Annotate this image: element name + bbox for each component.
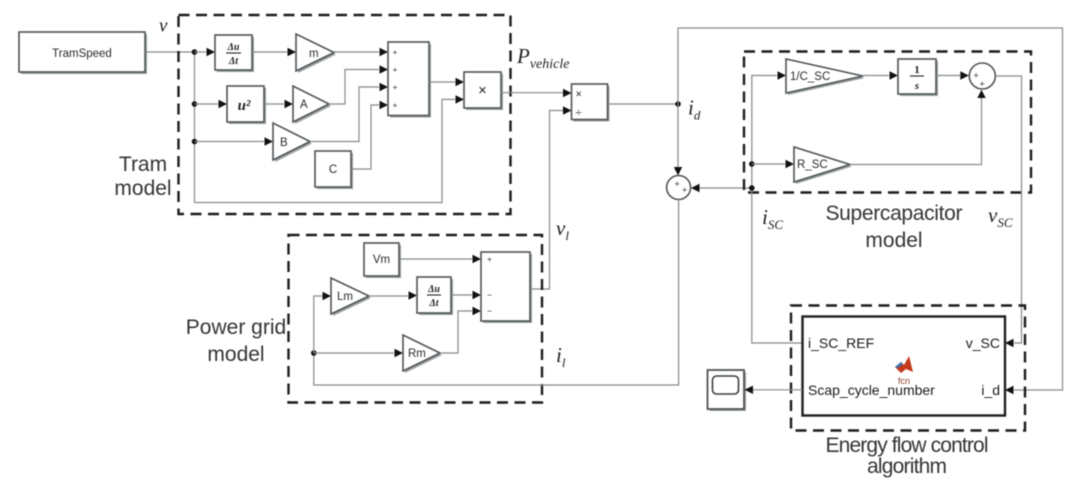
svg-text:+: +	[974, 71, 979, 81]
svg-text:m: m	[309, 48, 319, 60]
constant block Vm	[364, 243, 401, 278]
constant block C	[315, 151, 353, 189]
node junction v top	[192, 49, 198, 55]
wire A to sum in2	[329, 70, 379, 105]
svg-text:−: −	[487, 290, 492, 300]
svg-text:i_SC_REF: i_SC_REF	[808, 335, 874, 351]
svg-text:Δt: Δt	[428, 298, 439, 309]
derivative block du/dt 2	[417, 277, 453, 315]
svg-text:Lm: Lm	[337, 291, 353, 303]
svg-text:v_SC: v_SC	[966, 335, 1000, 351]
wire m to sum in1	[334, 51, 379, 53]
svg-text:Vm: Vm	[373, 254, 390, 266]
wire du/dt to gain m	[252, 51, 287, 53]
wire Scap_cycle_number to scope	[753, 389, 803, 391]
svg-text:Rm: Rm	[408, 348, 426, 360]
wire il bus from sum circle	[314, 200, 679, 386]
svg-text:1: 1	[914, 64, 920, 76]
wire Vm to sum pg in1	[399, 258, 472, 260]
gain Rm	[403, 335, 442, 373]
svg-text:−: −	[487, 306, 492, 316]
node junction isc to RSC	[749, 161, 755, 167]
gain m	[296, 34, 336, 73]
wire id up and across to control i_d input	[678, 28, 1063, 390]
svg-text:+: +	[675, 179, 680, 189]
sum block power grid	[481, 252, 532, 323]
wire v feedback to product in2	[195, 99, 456, 202]
matlab logo icon	[895, 356, 913, 386]
dashed subsystem box Tram model	[179, 15, 511, 214]
integrator block 1/s	[898, 59, 938, 96]
svg-text:+: +	[393, 82, 398, 92]
MATLAB function block	[803, 317, 1006, 416]
dashed subsystem box Power grid model	[289, 235, 543, 403]
wire TramSpeed to v bus	[145, 51, 195, 53]
wire product to divide	[501, 92, 563, 94]
wire v to du/dt	[195, 51, 207, 53]
wire v bus vertical	[194, 52, 196, 203]
svg-text:fcn: fcn	[898, 376, 910, 386]
wire C to sum in4	[351, 105, 379, 169]
source block TramSpeed	[19, 32, 147, 74]
svg-text:i_d: i_d	[981, 382, 1000, 398]
node junction il	[311, 350, 317, 356]
wire Lm to dudt2	[369, 295, 408, 297]
svg-text:s: s	[914, 80, 919, 92]
wire isc to RSC	[752, 163, 785, 165]
node junction isc to sum	[749, 185, 755, 191]
svg-text:R_SC: R_SC	[797, 159, 828, 171]
svg-text:+: +	[393, 100, 398, 110]
wire divide to id node	[608, 103, 679, 105]
wire vl to divide in2	[530, 111, 563, 290]
svg-text:u²: u²	[238, 98, 251, 114]
product block	[464, 72, 503, 110]
sum circle id+isc	[667, 176, 691, 200]
gain A	[293, 86, 331, 124]
gain B	[273, 123, 312, 162]
divide block	[572, 84, 610, 122]
wire 1/CSC to integrator	[863, 75, 889, 77]
svg-text:Δu: Δu	[227, 42, 240, 53]
svg-text:Δu: Δu	[427, 284, 440, 295]
svg-text:+: +	[393, 65, 398, 75]
wire u2 to gain A	[264, 103, 284, 105]
svg-text:A: A	[300, 99, 308, 111]
svg-text:TramSpeed: TramSpeed	[52, 48, 112, 60]
svg-text:1/C_SC: 1/C_SC	[790, 71, 830, 83]
svg-text:model: model	[865, 229, 922, 252]
node junction v low	[192, 139, 198, 145]
wire B to sum in3	[310, 87, 379, 142]
svg-text:v: v	[159, 16, 168, 37]
svg-text:×: ×	[576, 89, 582, 101]
svg-text:Δt: Δt	[228, 56, 239, 67]
wire il to Lm	[314, 296, 322, 353]
gain 1/C_SC	[786, 59, 865, 95]
svg-text:B: B	[280, 137, 288, 149]
svg-text:model: model	[207, 343, 264, 366]
wire id down to sum circle	[677, 104, 679, 167]
wire v to gain B	[195, 141, 265, 143]
svg-text:+: +	[980, 79, 985, 89]
wire v to u2	[195, 103, 219, 105]
svg-text:Supercapacitor: Supercapacitor	[826, 202, 963, 225]
svg-text:+: +	[393, 47, 398, 57]
svg-text:÷: ÷	[576, 107, 582, 119]
sum circle supercap	[969, 63, 995, 89]
svg-text:+: +	[682, 185, 687, 195]
wire RSC to sum circle 2 bottom	[850, 98, 982, 165]
sum block tram	[388, 42, 431, 118]
wire Rm to sum pg in3	[440, 311, 472, 353]
svg-text:+: +	[487, 254, 492, 264]
wire i_SC_REF feed line	[752, 76, 803, 344]
dashed subsystem box Supercapacitor model	[744, 52, 1031, 193]
svg-text:Energy flow control: Energy flow control	[826, 434, 989, 457]
svg-text:Scap_cycle_number: Scap_cycle_number	[808, 382, 935, 398]
wire isc into sum circle	[700, 187, 752, 189]
dashed box Energy flow control algorithm	[791, 306, 1025, 431]
svg-text:model: model	[114, 177, 171, 200]
wire il to Rm	[314, 352, 394, 354]
wire integrator to sum circle 2	[936, 75, 960, 77]
wire vsc output to control	[995, 76, 1021, 343]
svg-text:×: ×	[478, 82, 487, 99]
wire sum to product	[429, 81, 455, 83]
derivative block du/dt	[215, 35, 254, 72]
svg-text:Tram: Tram	[119, 153, 167, 176]
node id	[675, 101, 681, 107]
svg-text:Power grid: Power grid	[186, 316, 286, 339]
scope block	[708, 370, 747, 411]
svg-text:C: C	[329, 164, 337, 176]
wire dudt2 to sum pg in2	[451, 294, 472, 296]
node junction v mid	[192, 101, 198, 107]
gain Lm	[331, 278, 371, 316]
svg-text:algorithm: algorithm	[867, 455, 947, 478]
square block u2	[227, 86, 266, 124]
gain R_SC	[794, 147, 852, 184]
